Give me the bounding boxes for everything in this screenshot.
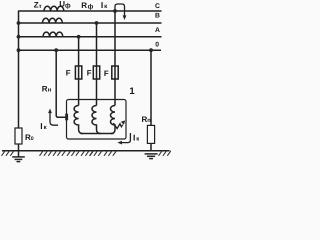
arrow Iк at neutral conductor	[50, 113, 58, 126]
earth surface line	[2, 150, 170, 152]
wire left star bus	[18, 11, 20, 129]
ground symbol at Rп	[145, 154, 158, 159]
transformer winding L2 (phase B)	[43, 18, 63, 23]
resistor Rп body	[147, 125, 154, 143]
svg-text:B: B	[155, 13, 160, 20]
motor winding 2	[92, 106, 101, 134]
svg-text:0: 0	[155, 42, 159, 49]
junction node line 0 / neutral drop	[54, 48, 58, 52]
junction node line C / drop	[113, 9, 117, 13]
svg-text:1: 1	[129, 86, 135, 97]
motor case terminal tick	[65, 114, 68, 121]
wire line C	[19, 10, 162, 12]
arrow Iк below motor case	[121, 133, 130, 143]
wire line A	[19, 36, 162, 38]
motor winding 1	[74, 106, 82, 134]
svg-text:A: A	[155, 27, 160, 34]
svg-text:F: F	[87, 69, 92, 78]
wire line 0 (neutral)	[19, 49, 162, 51]
wire drop phase B	[96, 23, 98, 106]
transformer winding L3 (phase A)	[43, 32, 63, 37]
fuse F1	[75, 66, 81, 79]
svg-text:F: F	[104, 69, 109, 78]
wire R0 to earth	[18, 144, 20, 157]
junction node on bus/line 0	[17, 48, 21, 52]
junction node line 0 / Rп drop	[149, 48, 153, 52]
motor case box 1	[67, 100, 127, 140]
wire Rп to earth	[150, 143, 152, 151]
svg-text:C: C	[155, 3, 160, 10]
resistor R0 body	[15, 128, 22, 144]
motor winding 3	[111, 106, 116, 134]
fuse F3	[112, 66, 118, 79]
breakdown arrow in winding 3	[113, 123, 122, 129]
ground symbol at R0	[12, 157, 25, 162]
wire motor star bus	[81, 133, 114, 135]
transformer winding L1 (phase C)	[44, 6, 64, 11]
earth hatching	[2, 151, 172, 156]
wire neutral drop to motor case	[56, 50, 65, 117]
junction node on bus/line A	[17, 35, 21, 39]
wire drop phase A	[78, 37, 80, 106]
svg-text:F: F	[66, 69, 71, 78]
svg-text:Uф: Uф	[59, 0, 71, 9]
arrow Iк at line C	[115, 4, 125, 16]
wire drop phase C	[114, 11, 116, 106]
fuse F2	[93, 66, 99, 79]
junction node line A / drop	[77, 35, 81, 39]
wire line B	[19, 22, 162, 24]
junction node line B / drop	[95, 21, 99, 25]
wire repeated-ground drop	[150, 50, 152, 125]
junction node on bus/line B	[17, 21, 21, 25]
